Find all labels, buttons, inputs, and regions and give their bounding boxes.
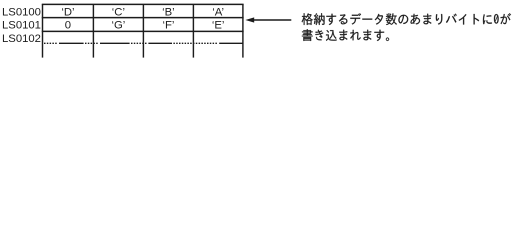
svg-text:‘B’: ‘B’ (162, 6, 175, 18)
row divider LS0101/LS0102 (42, 30, 244, 32)
svg-text:LS0101: LS0101 (2, 20, 41, 32)
svg-text:LS0102: LS0102 (2, 33, 41, 45)
memory table top border (42, 3, 244, 5)
svg-text:LS0100: LS0100 (2, 6, 41, 18)
continuation dash-dot line (44, 42, 243, 44)
svg-text:‘D’: ‘D’ (61, 6, 74, 18)
annotation text line 1: 格納するデータ数のあまりバイトに0が (302, 13, 511, 25)
callout arrow shaft (253, 19, 291, 21)
table right border (242, 4, 244, 57)
svg-text:‘E’: ‘E’ (212, 20, 225, 32)
row divider LS0100/LS0101 (42, 17, 244, 19)
column divider 3 (192, 4, 194, 57)
annotation text line 2: 書き込まれます。 (302, 29, 389, 41)
table left border (42, 4, 44, 57)
svg-text:‘F’: ‘F’ (162, 20, 174, 32)
callout arrow head (245, 17, 254, 22)
column divider 2 (142, 4, 144, 57)
svg-text:‘A’: ‘A’ (212, 6, 224, 18)
svg-text:‘G’: ‘G’ (111, 20, 125, 32)
svg-text:0: 0 (65, 20, 71, 32)
svg-text:‘C’: ‘C’ (112, 6, 125, 18)
column divider 1 (92, 4, 94, 57)
